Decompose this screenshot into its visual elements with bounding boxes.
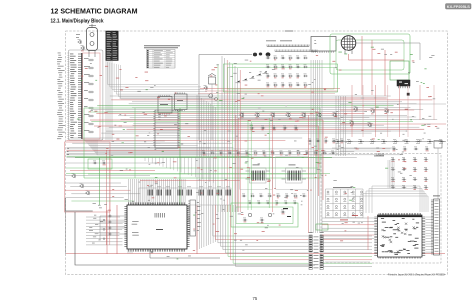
- svg-text:CN203: CN203: [376, 152, 385, 156]
- svg-text:75: 75: [253, 296, 258, 301]
- svg-text:12 SCHEMATIC DIAGRAM: 12 SCHEMATIC DIAGRAM: [51, 7, 138, 16]
- svg-text:KX-FP205LS: KX-FP205LS: [447, 5, 471, 9]
- svg-text:Printed in Japan (K) 0405-1 (R: Printed in Japan (K) 0405-1 (Required Pa…: [388, 273, 445, 277]
- svg-text:12.1. Main/Display Block: 12.1. Main/Display Block: [51, 19, 104, 25]
